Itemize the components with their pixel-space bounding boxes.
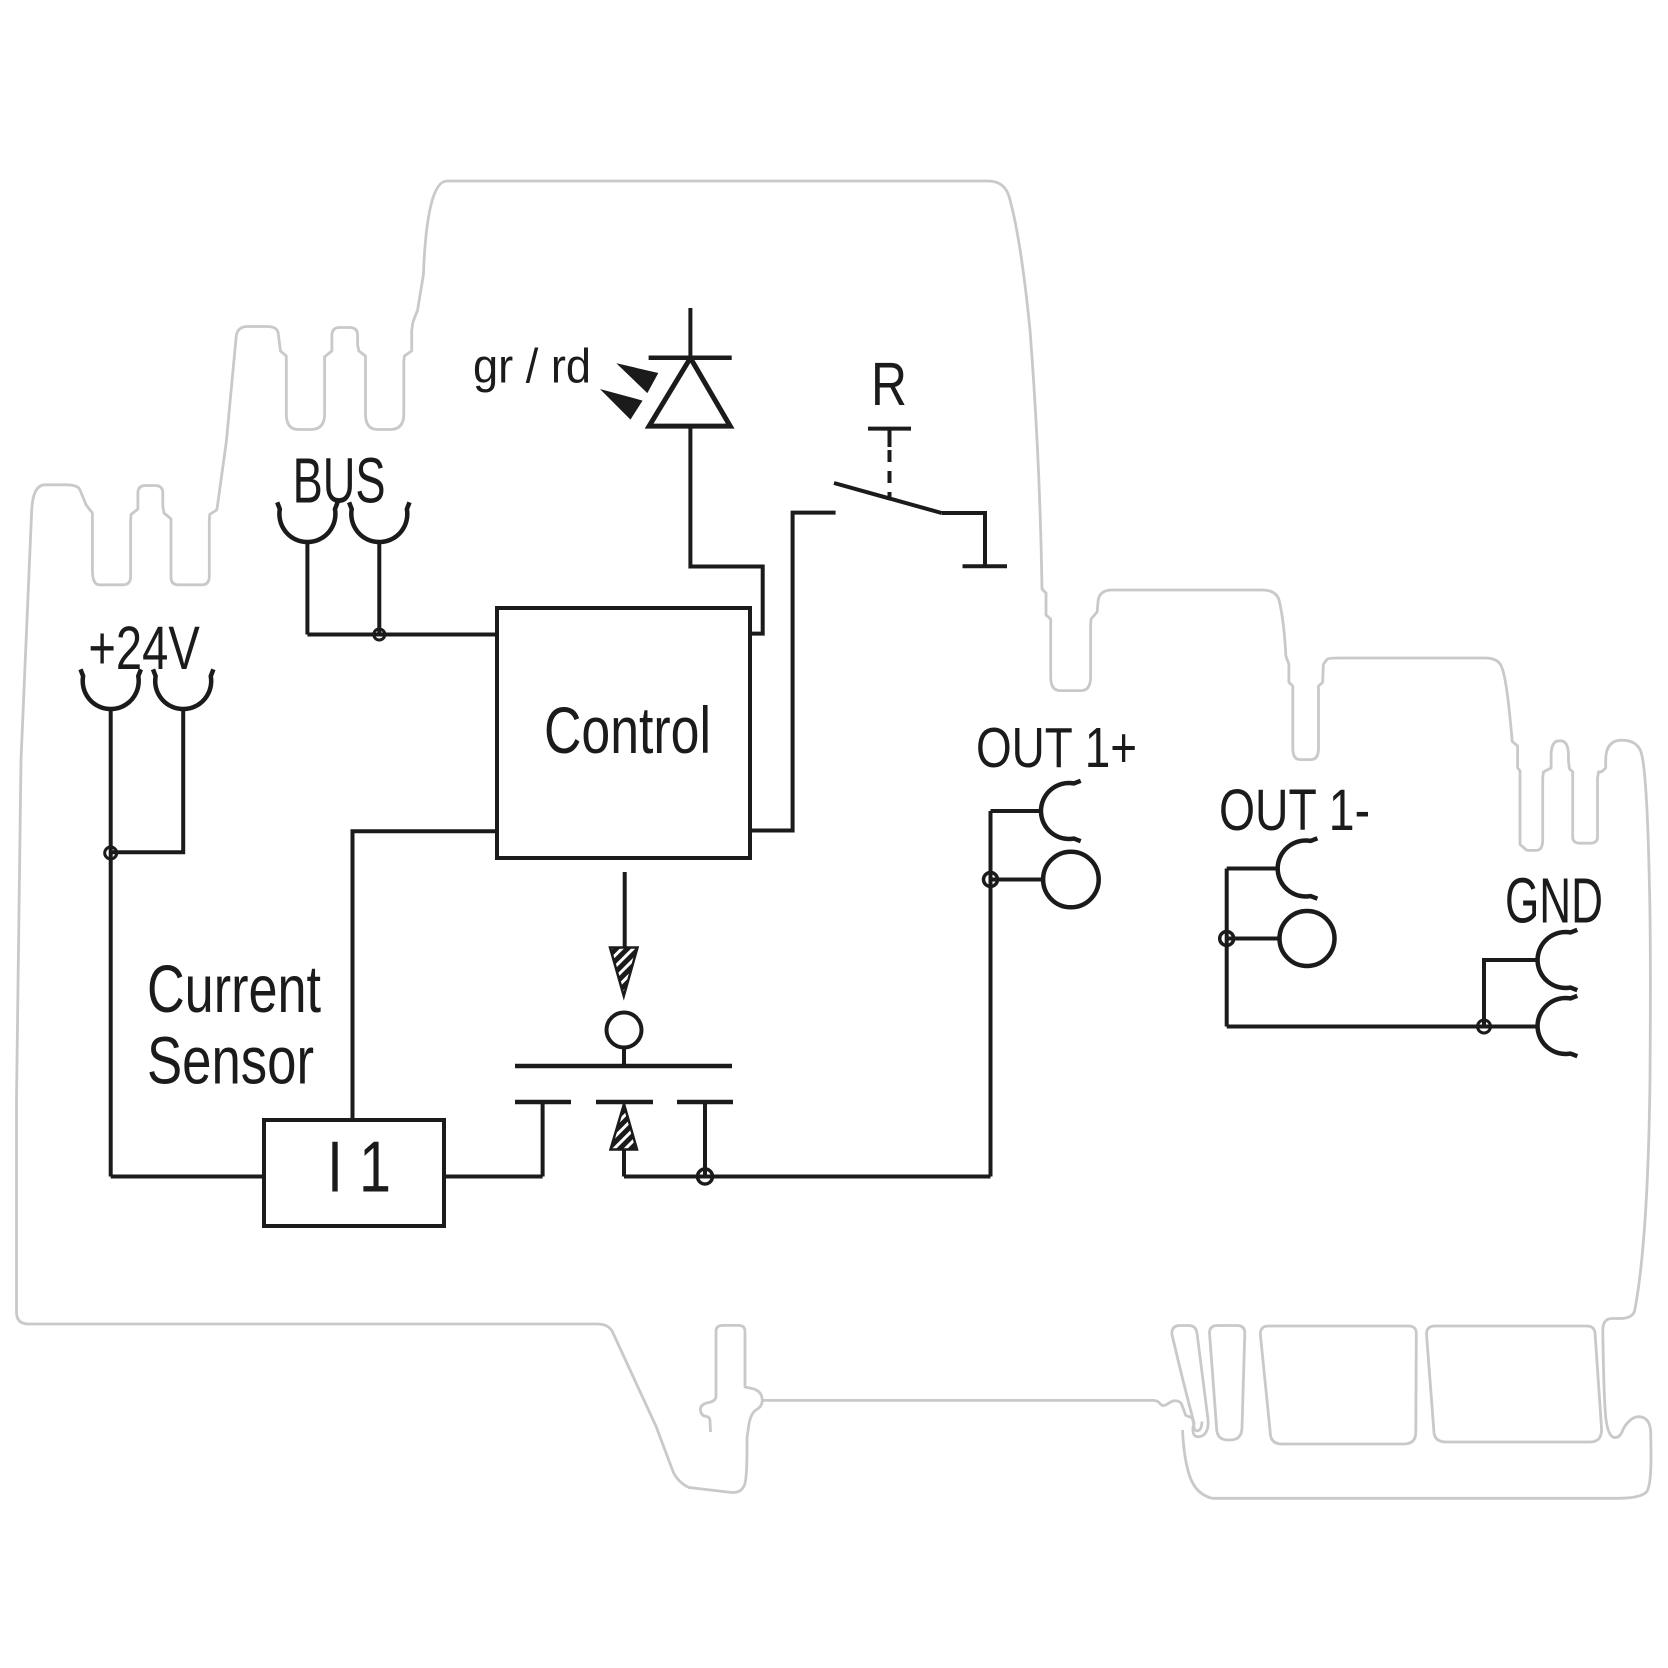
- arrow: Control to MOSFET gate stem: [623, 872, 627, 948]
- MOSFET Q1: body arrow stem: [622, 1150, 626, 1177]
- wire: LED anode lead down to Control right side: [690, 426, 762, 634]
- terminal clamp: +24V 1: [81, 669, 141, 709]
- terminal clamp: GND lower: [1538, 996, 1578, 1056]
- svg-text:OUT 1+: OUT 1+: [976, 716, 1137, 780]
- svg-text:GND: GND: [1505, 865, 1603, 937]
- wire: OUT 1- clamp stub: [1227, 867, 1278, 871]
- reset button R: lever: [834, 483, 942, 513]
- wire: MOSFET drain rail to OUT 1+ riser: [624, 1175, 991, 1179]
- LED D1: cathode bar: [649, 356, 732, 361]
- Control block U1: [497, 608, 750, 858]
- wire: OUT 1+ test socket stub: [991, 878, 1044, 882]
- LED D1: light arrow 2: [603, 391, 641, 418]
- MOSFET Q1: drain lead: [703, 1102, 707, 1177]
- wire: OUT 1+ clamp stub: [991, 809, 1042, 813]
- wire: OUT 1- to GND bus: [1227, 1025, 1538, 1029]
- MOSFET Q1: gate bar: [515, 1064, 732, 1069]
- svg-text:BUS: BUS: [293, 444, 386, 516]
- terminal clamp: +24V 2: [153, 669, 213, 709]
- wire: OUT 1+ riser: [989, 811, 993, 1177]
- wire: LED cathode lead up: [688, 308, 692, 358]
- svg-text:Control: Control: [544, 693, 711, 767]
- svg-text:+24V: +24V: [88, 614, 200, 682]
- MOSFET Q1: gate stem: [622, 1048, 626, 1067]
- wire: +24V rail to I1 left side: [111, 1175, 264, 1179]
- current sensor block I1: [264, 1120, 444, 1226]
- junction: GND node: [1478, 1020, 1491, 1033]
- reset button R: actuator bar: [868, 427, 911, 431]
- wire: BUS bus line to Control left side: [307, 633, 497, 637]
- housing outline: rail left lip wedge (gray): [1172, 1326, 1208, 1437]
- wire: BUS clamp 1 lead down: [305, 542, 309, 635]
- wire: BUS clamp 2 lead down to junction: [377, 542, 381, 635]
- svg-text:gr / rd: gr / rd: [473, 341, 591, 394]
- wire: reset switch left contact to Control right side: [750, 513, 836, 831]
- housing outline: DIN rail panel 1 (gray): [1210, 1326, 1245, 1441]
- terminal clamp: BUS 1: [277, 502, 337, 542]
- test socket: OUT 1+: [1043, 852, 1099, 908]
- MOSFET Q1: channel segment right: [677, 1100, 733, 1105]
- junction: +24V node: [105, 847, 117, 859]
- LED D1: triangle: [649, 358, 730, 426]
- housing outline: terminal-block tier profile (gray): [17, 181, 1652, 1498]
- MOSFET Q1: channel segment left: [515, 1100, 571, 1105]
- svg-text:OUT 1-: OUT 1-: [1219, 778, 1370, 843]
- MOSFET Q1: channel segment middle: [596, 1100, 653, 1105]
- wire: GND junction riser to upper clamp: [1484, 960, 1538, 1027]
- junction: OUT 1- node: [1220, 932, 1234, 946]
- MOSFET Q1: gate bubble: [607, 1013, 642, 1048]
- arrow: Control to MOSFET hatched head: [610, 948, 638, 997]
- housing outline: DIN rail top edge and clip hook (gray): [762, 1400, 1202, 1430]
- reset button R: right contact: [942, 513, 985, 566]
- housing outline: DIN rail panel 3 (gray): [1427, 1326, 1602, 1442]
- svg-text:R: R: [871, 350, 907, 418]
- terminal clamp: OUT 1-: [1278, 838, 1318, 898]
- wire: OUT 1- test socket stub: [1227, 937, 1280, 941]
- terminal clamp: BUS 2: [349, 502, 409, 542]
- MOSFET Q1: body arrow head: [611, 1104, 638, 1150]
- svg-text:Current: Current: [147, 952, 321, 1027]
- LED D1: light arrow 1: [620, 365, 657, 392]
- housing outline: DIN rail panel 2 (gray): [1260, 1326, 1416, 1444]
- wire: Control left side to I1 top (current sensor link): [353, 831, 498, 1120]
- reset button R: actuator dashed link: [888, 450, 892, 498]
- reset button R: bottom contact bar: [963, 564, 1008, 568]
- junction: OUT 1+ node: [984, 873, 998, 887]
- wire: I1 output to MOSFET source: [444, 1175, 543, 1179]
- wire: +24V clamp 2 lead down and over to junction: [111, 709, 184, 852]
- housing outline: left module bottom edge and DIN-rail clip (gray): [17, 1312, 763, 1493]
- wire: OUT 1- riser: [1225, 869, 1229, 1027]
- terminal clamp: GND upper: [1538, 930, 1578, 990]
- svg-text:Sensor: Sensor: [147, 1024, 314, 1099]
- wire: +24V clamp 1 lead down (to I1): [109, 709, 113, 1177]
- junction: BUS node: [374, 629, 385, 640]
- MOSFET Q1: source lead: [541, 1102, 545, 1177]
- terminal clamp: OUT 1+: [1041, 781, 1081, 841]
- svg-text:I 1: I 1: [327, 1128, 391, 1208]
- test socket: OUT 1-: [1280, 911, 1335, 966]
- reset button R: actuator stem: [888, 429, 892, 447]
- junction: MOSFET drain node: [698, 1169, 713, 1184]
